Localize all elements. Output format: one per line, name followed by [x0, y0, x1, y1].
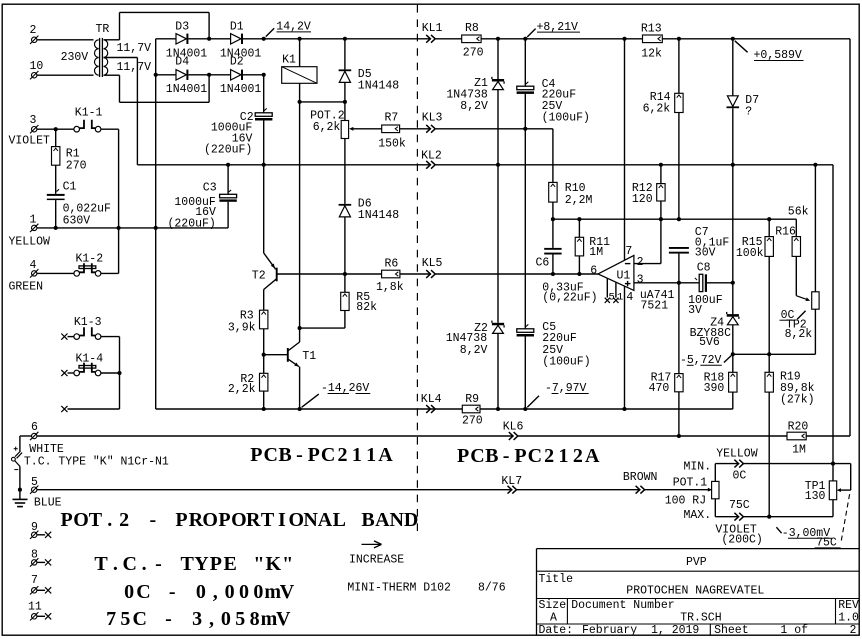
svg-text:1 of: 1 of	[780, 624, 808, 637]
svg-text:MAX.: MAX.	[684, 509, 712, 522]
svg-text:270: 270	[462, 414, 483, 427]
svg-text:BROWN: BROWN	[623, 471, 658, 484]
svg-text:1N4001: 1N4001	[220, 83, 262, 96]
node D7/0V rail	[731, 163, 735, 167]
node T1 collector	[298, 326, 302, 330]
svg-text:KL3: KL3	[422, 112, 443, 125]
svg-text:REV: REV	[838, 599, 859, 612]
wire R18 bottom	[732, 392, 734, 409]
wire T2 base to R6	[277, 273, 382, 275]
wire +8,21V right rail down to R20	[849, 39, 851, 436]
svg-text:T1: T1	[302, 350, 316, 363]
wire Z1 bottom through KL3 to Z2	[497, 90, 499, 323]
wire D4-D2 node	[188, 74, 230, 76]
wire op-amp pin3	[634, 282, 699, 284]
wire K1-3 right	[101, 336, 120, 338]
svg-text:5V6: 5V6	[699, 336, 720, 349]
svg-text:KL7: KL7	[501, 475, 522, 488]
diode D5	[339, 69, 352, 71]
svg-text:270: 270	[66, 160, 87, 173]
wire 0V rail right drop	[832, 165, 834, 464]
op-amp minus sign	[625, 263, 631, 265]
wire R2 bottom	[263, 391, 265, 409]
capacitor C6	[552, 219, 554, 248]
svg-text:3: 3	[637, 274, 644, 287]
label -14,26V	[302, 394, 319, 407]
svg-text:K1-4: K1-4	[76, 353, 104, 366]
node TP1 top	[831, 462, 835, 466]
svg-text:PVP: PVP	[686, 556, 707, 569]
wire C3 top	[227, 165, 229, 195]
node negative column	[154, 226, 158, 230]
potentiometer POT.1	[708, 488, 712, 492]
wire POT.1 top to 0C wire	[714, 464, 716, 482]
svg-text:270: 270	[463, 46, 484, 59]
contact K1-3	[61, 334, 67, 340]
svg-text:1,8k: 1,8k	[376, 281, 404, 294]
relay coil K1	[282, 67, 317, 84]
svg-text:KL6: KL6	[503, 421, 524, 434]
svg-text:8,2V: 8,2V	[460, 100, 488, 113]
svg-text:30V: 30V	[695, 247, 716, 260]
node K1 link	[117, 226, 121, 230]
node R11 top	[577, 217, 581, 221]
svg-text:(200C): (200C)	[721, 534, 762, 547]
resistor R17	[675, 374, 683, 392]
wire 0V rail	[137, 164, 833, 166]
wire D3-D1 node	[188, 38, 230, 40]
svg-text:D2: D2	[230, 56, 244, 69]
svg-text:MIN.: MIN.	[684, 460, 712, 473]
wire R5 leads	[344, 274, 346, 292]
wire R3 to T1 base node	[263, 329, 265, 355]
resistor R1	[55, 129, 57, 146]
wire term4 to K1-2	[37, 272, 74, 274]
svg-text:7: 7	[625, 245, 632, 258]
svg-text:6,2k: 6,2k	[643, 102, 671, 115]
transistor T2 (PNP)	[263, 165, 265, 253]
node Z2 bottom	[496, 407, 500, 411]
node R10/C6	[551, 217, 555, 221]
node D5 bottom	[343, 100, 347, 104]
diode D6	[339, 204, 352, 206]
wire reference rail	[553, 218, 796, 220]
svg-text:POT.1: POT.1	[673, 476, 708, 489]
node K1 top	[298, 37, 302, 41]
label +8,21V	[527, 29, 535, 37]
node D6/R5	[343, 272, 347, 276]
svg-text:390: 390	[704, 382, 725, 395]
wire R20 right	[806, 435, 850, 437]
resistor R12	[660, 165, 662, 184]
node K1 bottom	[298, 100, 302, 104]
svg-text:4: 4	[626, 291, 633, 304]
svg-text:?: ?	[745, 106, 752, 119]
wire T1 base	[264, 354, 287, 356]
node C4 top	[523, 37, 527, 41]
svg-text:D1: D1	[230, 20, 244, 33]
wire TP2 bottom	[814, 309, 816, 354]
wire POT.2 bottom to D6	[344, 139, 346, 204]
svg-text:4: 4	[30, 259, 37, 272]
node R14/C7	[677, 217, 681, 221]
wire C2 bottom	[263, 121, 265, 165]
svg-text:(0,22uF): (0,22uF)	[542, 291, 597, 304]
svg-text:2: 2	[850, 624, 857, 637]
wire C2 top	[263, 75, 265, 113]
wire 0C loop to TP1 wiper	[850, 464, 852, 491]
svg-text:2,2M: 2,2M	[565, 194, 593, 207]
wire C5 bottom	[524, 337, 526, 410]
wire K1 bottom	[299, 83, 301, 102]
node Z4/-5,72V	[731, 352, 735, 356]
wire K1-4 right	[101, 372, 120, 374]
resistor R2	[260, 373, 268, 391]
resistor R18	[732, 354, 734, 372]
svg-text:(220uF): (220uF)	[204, 144, 252, 157]
resistor R20	[787, 432, 806, 440]
node D3/D1 junction	[207, 37, 211, 41]
svg-text:56k: 56k	[788, 206, 809, 219]
op-amp pin1 stub	[615, 282, 617, 297]
wire POT.1 bottom to 75C wire	[714, 499, 716, 517]
node R8/Z1	[496, 37, 500, 41]
resistor R9	[462, 405, 480, 413]
node TP2 top	[813, 163, 817, 167]
svg-text:Sheet: Sheet	[714, 624, 749, 637]
svg-text:8,2V: 8,2V	[460, 344, 488, 357]
wire term3 to K1-1	[37, 128, 74, 130]
node C6/KL5	[551, 272, 555, 276]
svg-text:630V: 630V	[63, 214, 91, 227]
wire KL3 corner to R10	[525, 128, 553, 130]
svg-text:YELLOW: YELLOW	[716, 448, 758, 461]
label -3,00mV	[776, 527, 781, 533]
svg-text:75C: 75C	[729, 499, 750, 512]
wire K1/D5 bottom link	[300, 101, 345, 103]
wire terminal 6 / KL6 rail	[37, 435, 787, 437]
svg-text:1.0: 1.0	[838, 612, 859, 625]
resistor R8	[462, 35, 481, 43]
label -7,97V	[527, 396, 539, 408]
resistor R3	[260, 310, 268, 329]
dashed pointer TP1 to label	[841, 494, 849, 541]
svg-text:R1: R1	[66, 148, 80, 161]
resistor R15	[768, 219, 770, 236]
resistor R10	[549, 182, 557, 202]
resistor R6	[382, 270, 400, 278]
node C1 bottom	[54, 226, 58, 230]
capacitor C5	[517, 329, 534, 333]
wire secondary top loop	[104, 39, 120, 41]
zener Z2	[492, 323, 504, 326]
wire terminal 5 / KL7 / BROWN	[37, 489, 709, 491]
svg-text:K1-1: K1-1	[75, 107, 103, 120]
trimmer TP2	[814, 165, 816, 292]
svg-text:D3: D3	[175, 20, 189, 33]
svg-text:2,2k: 2,2k	[228, 383, 256, 396]
svg-text:1N4001: 1N4001	[166, 83, 208, 96]
resistor R7	[382, 125, 400, 133]
wire secondary center tap	[104, 57, 138, 59]
svg-text:R13: R13	[641, 22, 662, 35]
svg-text:C6: C6	[536, 256, 550, 269]
svg-text:150k: 150k	[378, 137, 406, 150]
svg-text:(220uF): (220uF)	[168, 218, 216, 231]
transformer TR	[94, 40, 98, 75]
title block frame	[537, 548, 860, 550]
wire TP1 bottom	[832, 500, 834, 517]
wire R10 bottom	[552, 202, 554, 219]
capacitor C8	[699, 274, 703, 291]
wire C4 bottom	[524, 94, 526, 129]
wire terminal 1	[37, 227, 156, 229]
svg-text:1: 1	[30, 214, 37, 227]
node K1-4 link	[117, 371, 121, 375]
svg-text:(27k): (27k)	[780, 393, 815, 406]
wire op-amp pin4 down	[624, 286, 626, 409]
node R17/KL6	[677, 434, 681, 438]
svg-text:11: 11	[28, 601, 42, 614]
wire secondary bottom loop	[104, 74, 120, 76]
node op-amp V+ column	[622, 37, 626, 41]
diode D3	[176, 34, 186, 44]
wire C4 column down to C5	[524, 129, 526, 329]
capacitor C3	[220, 194, 237, 198]
diode D7	[727, 96, 738, 107]
spare contact X	[61, 406, 67, 412]
node R1 top	[54, 127, 58, 131]
wire R2 top	[263, 355, 265, 374]
increase arrow	[362, 543, 382, 545]
trimmer TP1	[832, 464, 834, 481]
contact K1-2	[74, 271, 80, 277]
wire R17 bottom	[678, 392, 680, 436]
ground	[19, 490, 21, 500]
wire D5 bottom	[344, 82, 346, 102]
node T1 base	[262, 353, 266, 357]
node D7 top	[731, 37, 735, 41]
wire R16 to TP2 wiper	[795, 256, 797, 295]
wire op-amp pin2	[634, 263, 661, 265]
svg-text:R20: R20	[788, 421, 809, 434]
wire R11 bottom	[578, 256, 580, 274]
svg-text:Title: Title	[539, 573, 574, 586]
svg-text:YELLOW: YELLOW	[9, 236, 51, 249]
svg-text:470: 470	[649, 382, 670, 395]
resistor R16	[795, 219, 797, 236]
svg-text:(100uF): (100uF)	[542, 355, 590, 368]
diode D1	[231, 34, 241, 44]
svg-text:C1: C1	[63, 181, 77, 194]
node R15 top	[767, 217, 771, 221]
wire thermocouple to terminal 5 node	[19, 466, 21, 489]
capacitor C7	[669, 247, 689, 249]
wire op-amp V+ pin7	[624, 39, 626, 260]
svg-text:12k: 12k	[641, 47, 662, 60]
wire POT.2 top	[344, 102, 346, 121]
svg-text:2: 2	[637, 256, 644, 269]
svg-text:R7: R7	[385, 112, 399, 125]
wire R6 to KL5	[400, 273, 598, 275]
svg-text:VIOLET: VIOLET	[9, 135, 51, 148]
svg-text:TR.SCH: TR.SCH	[680, 612, 721, 625]
wire C8 right	[707, 282, 733, 284]
svg-text:1N4148: 1N4148	[358, 80, 400, 93]
svg-text:R9: R9	[465, 393, 479, 406]
svg-text:100k: 100k	[736, 247, 764, 260]
svg-text:Size: Size	[539, 599, 567, 612]
svg-text:MINI-THERM D102: MINI-THERM D102	[347, 582, 451, 595]
svg-text:11,7V: 11,7V	[117, 42, 152, 55]
svg-text:BLUE: BLUE	[34, 497, 62, 510]
wire terminal 6 left	[20, 435, 32, 437]
resistor R5	[341, 292, 349, 310]
svg-text:PCB-PC212A: PCB-PC212A	[457, 445, 600, 467]
wire term2 to primary	[37, 39, 94, 41]
wire D6 bottom	[344, 217, 346, 274]
node R2/T2col	[262, 407, 266, 411]
svg-text:6: 6	[590, 265, 597, 278]
op-amp plus sign	[625, 283, 631, 285]
svg-text:6: 6	[31, 421, 38, 434]
thermocouple junction	[15, 451, 21, 457]
label +14,2V	[266, 28, 274, 36]
wire C3 bottom	[227, 202, 229, 228]
node C2 bottom / T2 emitter	[262, 163, 266, 167]
svg-text:75C - 3,058mV: 75C - 3,058mV	[106, 608, 291, 630]
svg-text:K1-2: K1-2	[76, 252, 104, 265]
node R12 top	[659, 163, 663, 167]
node D5 top	[343, 37, 347, 41]
svg-text:8,2k: 8,2k	[785, 328, 813, 341]
svg-text:PCB-PC211A: PCB-PC211A	[250, 444, 393, 466]
capacitor C4	[524, 39, 526, 86]
svg-text:U1: U1	[617, 269, 631, 282]
node R19/75C	[767, 515, 771, 519]
wire R12 bottom	[660, 201, 662, 219]
capacitor C2	[255, 113, 272, 117]
node C2 top	[262, 37, 266, 41]
svg-text:3: 3	[30, 114, 37, 127]
svg-text:GREEN: GREEN	[9, 281, 44, 294]
wire D2 cathode to C2 column	[243, 74, 264, 76]
wire C1 bottom	[55, 200, 57, 228]
svg-text:WHITE: WHITE	[29, 443, 64, 456]
svg-text:130: 130	[805, 490, 826, 503]
wire T2 collector to R3	[263, 290, 265, 311]
node C8/Z4	[731, 281, 735, 285]
wire -5,72V	[733, 353, 816, 355]
svg-text:R16: R16	[775, 226, 796, 239]
wire D1 cathode to +14V rail	[243, 38, 264, 40]
wire Z2 bottom	[497, 333, 499, 409]
wire R7 to KL3	[400, 128, 526, 130]
wire K1 column down to T1 collector	[299, 102, 301, 328]
svg-text:KL4: KL4	[421, 393, 442, 406]
node R14 top	[677, 37, 681, 41]
svg-text:10: 10	[30, 60, 44, 73]
resistor R11	[578, 219, 580, 237]
svg-text:A: A	[550, 612, 557, 625]
zener Z4	[727, 314, 739, 317]
wire C6 bottom	[552, 255, 554, 275]
contact K1-1	[74, 126, 80, 132]
wire D3 anode	[156, 38, 176, 40]
svg-text:7521: 7521	[641, 299, 669, 312]
svg-text:7: 7	[31, 574, 38, 587]
resistor R13	[643, 35, 663, 43]
svg-text:T.C. TYPE "K" N1Cr-N1: T.C. TYPE "K" N1Cr-N1	[24, 456, 169, 469]
wire negative column from D3/D4 anodes	[155, 39, 157, 409]
node R12/reference rail	[659, 217, 663, 221]
svg-text:R6: R6	[385, 257, 399, 270]
svg-text:(100uF): (100uF)	[542, 112, 590, 125]
svg-text:K1-3: K1-3	[74, 316, 102, 329]
node C5 bottom	[523, 407, 527, 411]
POT.2 wiper arrow	[349, 127, 353, 131]
node D4 anode junction	[154, 73, 158, 77]
svg-text:K1: K1	[282, 54, 296, 67]
wire C7 bottom	[678, 254, 680, 283]
node ground	[18, 488, 22, 492]
wire +14,2V rail	[264, 38, 462, 40]
resistor R19	[768, 354, 770, 372]
node C7/pin3	[677, 281, 681, 285]
wire K1 top	[299, 39, 301, 67]
wire R14 bottom	[678, 113, 680, 220]
node C4/KL3	[523, 127, 527, 131]
potentiometer POT.2	[341, 121, 348, 139]
node D4/D2 junction	[207, 73, 211, 77]
svg-text:1N4148: 1N4148	[358, 209, 400, 222]
wire R15 bottom	[768, 256, 770, 354]
node Z1/0V rail	[496, 163, 500, 167]
resistor R14	[678, 39, 680, 94]
node T1 emitter	[298, 407, 302, 411]
wire K1-2 right	[101, 272, 119, 274]
svg-text:INCREASE: INCREASE	[349, 554, 404, 567]
wire Z4 bottom	[732, 325, 734, 355]
wire D7 bottom to 0V rail and Z4	[732, 108, 734, 314]
contact K1-4	[61, 370, 67, 376]
svg-text:C3: C3	[203, 182, 217, 195]
node D2 cathode	[262, 73, 266, 77]
svg-text:KL5: KL5	[422, 257, 443, 270]
op-amp pin5 stub	[606, 278, 608, 297]
node C3 top	[226, 163, 230, 167]
svg-text:R8: R8	[465, 22, 479, 35]
wire D4 anode	[156, 74, 176, 76]
svg-text:120: 120	[632, 193, 653, 206]
svg-text:2: 2	[30, 24, 37, 37]
wire T1 collector to R5 bottom	[300, 327, 345, 329]
svg-text:230V: 230V	[61, 51, 89, 64]
svg-text:1M: 1M	[589, 246, 603, 259]
wire KL4 rail	[156, 408, 463, 410]
node R15/R19/-5,72V	[767, 352, 771, 356]
capacitor C1	[55, 165, 57, 194]
svg-text:82k: 82k	[356, 301, 377, 314]
svg-text:1M: 1M	[792, 444, 806, 457]
svg-text:3,9k: 3,9k	[228, 321, 256, 334]
wire term10 to primary	[37, 74, 94, 76]
zener Z1	[497, 39, 499, 79]
svg-text:6,2k: 6,2k	[313, 121, 341, 134]
node pin4/KL4	[622, 407, 626, 411]
wire D5 top	[344, 39, 346, 70]
svg-text:11,7V: 11,7V	[117, 61, 152, 74]
